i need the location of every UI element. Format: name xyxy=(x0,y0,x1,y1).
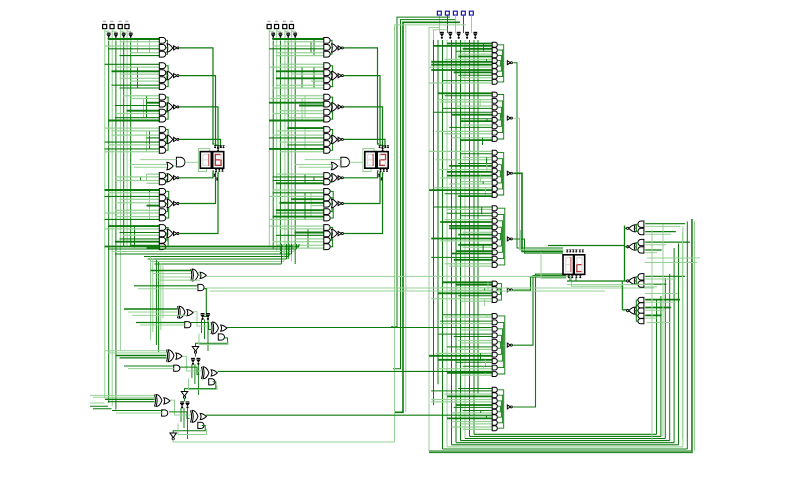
input pin C2 xyxy=(453,11,457,15)
not gate xyxy=(338,231,341,235)
wire xyxy=(575,278,577,282)
and gate xyxy=(324,77,330,83)
and gate xyxy=(492,393,497,398)
and gate xyxy=(492,298,497,303)
wire xyxy=(291,247,324,249)
wire xyxy=(456,361,492,363)
wire xyxy=(436,159,493,161)
wire xyxy=(498,63,504,82)
wire xyxy=(484,373,486,375)
and gate xyxy=(492,162,497,167)
wire xyxy=(299,105,324,107)
wire xyxy=(486,59,488,61)
display pin xyxy=(384,145,387,147)
wire xyxy=(474,433,657,435)
and gate xyxy=(324,134,330,140)
wire xyxy=(311,205,324,207)
or gate xyxy=(332,44,338,52)
wire xyxy=(291,198,324,200)
wire xyxy=(295,164,332,166)
or gate xyxy=(176,353,182,359)
input pin A1 xyxy=(118,25,122,29)
wire xyxy=(199,334,228,345)
display pin xyxy=(579,275,582,277)
wire xyxy=(686,222,688,450)
wire xyxy=(273,38,324,40)
wire xyxy=(513,276,566,346)
wire xyxy=(273,87,324,89)
wire xyxy=(498,239,504,259)
wire xyxy=(90,402,105,404)
display pin xyxy=(386,169,389,171)
and gate xyxy=(324,84,330,90)
or gate xyxy=(200,413,206,419)
and gate xyxy=(159,70,165,76)
inverter BN3 xyxy=(271,34,276,37)
wire xyxy=(105,228,160,230)
wire xyxy=(132,314,187,316)
wire xyxy=(463,246,493,248)
wire xyxy=(445,393,493,395)
wire xyxy=(276,70,324,72)
and gate xyxy=(159,134,165,140)
wire xyxy=(147,247,160,249)
wire xyxy=(452,114,493,116)
pin label xyxy=(290,21,293,23)
wire xyxy=(115,209,159,211)
and gate xyxy=(159,45,165,51)
wire xyxy=(567,284,654,286)
wire xyxy=(287,144,324,146)
wire xyxy=(521,230,564,250)
wire xyxy=(440,177,492,179)
wire xyxy=(498,221,503,239)
wire xyxy=(123,234,160,236)
pin label xyxy=(119,21,122,23)
wire xyxy=(166,73,167,75)
wire xyxy=(443,80,493,82)
wire xyxy=(276,55,324,57)
and gate xyxy=(159,127,165,133)
wire xyxy=(280,63,324,65)
wire xyxy=(438,92,492,94)
wire xyxy=(447,15,449,33)
and gate xyxy=(638,308,644,313)
wire xyxy=(112,410,163,412)
wire xyxy=(344,107,384,146)
wire xyxy=(447,208,492,210)
wire xyxy=(134,285,198,287)
wire xyxy=(429,450,692,452)
wire xyxy=(344,48,379,144)
wire xyxy=(179,171,214,178)
wire xyxy=(166,175,167,178)
and gate xyxy=(324,231,330,237)
wire xyxy=(429,82,492,84)
and gate xyxy=(159,244,165,250)
wire xyxy=(166,40,168,46)
wire xyxy=(276,173,324,175)
display pin xyxy=(383,169,386,171)
wire xyxy=(431,298,492,300)
and gate xyxy=(324,38,330,44)
wire xyxy=(645,278,676,280)
wire xyxy=(498,290,501,295)
wire xyxy=(498,345,504,367)
and gate xyxy=(492,150,497,155)
display pin xyxy=(381,148,384,150)
wire xyxy=(458,74,492,76)
wire xyxy=(567,280,628,282)
wire xyxy=(149,190,151,219)
wire xyxy=(498,407,502,417)
wire xyxy=(395,25,467,442)
inverter AN0 xyxy=(128,34,133,37)
wire xyxy=(137,67,139,85)
wire xyxy=(137,39,139,53)
wire xyxy=(498,390,504,407)
wire xyxy=(207,320,209,352)
wire xyxy=(452,444,679,446)
wire xyxy=(330,203,331,206)
wire xyxy=(127,110,160,112)
and gate xyxy=(159,237,165,243)
wire xyxy=(461,440,670,442)
wire xyxy=(445,316,493,318)
wire xyxy=(166,109,168,119)
wire xyxy=(645,225,680,227)
display pin xyxy=(379,169,382,171)
wire xyxy=(268,29,270,41)
wire xyxy=(452,421,493,423)
wire xyxy=(482,366,484,368)
wire xyxy=(440,240,492,242)
wire xyxy=(120,357,167,359)
wire xyxy=(273,241,324,243)
wire xyxy=(123,41,125,247)
wire xyxy=(147,102,160,104)
down inverter xyxy=(192,347,198,352)
wire xyxy=(461,77,493,79)
wire xyxy=(276,84,324,86)
wire xyxy=(280,202,324,204)
wire xyxy=(330,130,332,138)
and gate xyxy=(324,201,330,207)
pin label xyxy=(267,21,270,23)
wire xyxy=(294,41,296,265)
wire xyxy=(455,40,457,443)
wire xyxy=(330,198,332,203)
wire xyxy=(447,212,492,214)
wire xyxy=(635,277,638,281)
wire xyxy=(280,110,324,112)
and gate xyxy=(492,137,497,142)
wire xyxy=(431,401,492,403)
and gate xyxy=(492,281,497,286)
wire xyxy=(189,379,218,390)
wire xyxy=(456,284,492,286)
and gate xyxy=(324,70,330,76)
or gate xyxy=(167,71,173,79)
wire xyxy=(116,355,167,357)
wire xyxy=(694,221,696,451)
wire xyxy=(463,365,493,367)
wire xyxy=(486,119,488,121)
or gate xyxy=(332,229,338,237)
or gate xyxy=(332,71,338,79)
wire xyxy=(149,131,151,149)
not gate xyxy=(507,237,510,241)
wire xyxy=(151,261,284,263)
wire xyxy=(434,187,493,189)
wire xyxy=(119,41,121,351)
and gate xyxy=(638,303,644,308)
wire xyxy=(438,99,492,101)
wire xyxy=(498,159,503,174)
wire xyxy=(434,30,448,40)
wire xyxy=(463,231,493,233)
wire xyxy=(115,117,159,119)
wire xyxy=(166,191,169,201)
wire xyxy=(436,130,493,132)
wire xyxy=(148,258,287,260)
wire xyxy=(482,138,484,145)
and gate xyxy=(159,116,165,122)
wire xyxy=(513,277,566,290)
input pin B0 xyxy=(289,25,293,29)
or gate xyxy=(167,44,173,52)
wire xyxy=(431,238,492,240)
wire xyxy=(458,244,492,246)
wire xyxy=(330,142,332,151)
wire xyxy=(137,67,139,88)
wire xyxy=(218,370,493,372)
wire xyxy=(445,133,493,135)
wire xyxy=(651,230,653,440)
wire xyxy=(330,233,331,234)
wire xyxy=(105,195,160,197)
wire xyxy=(146,96,148,118)
wire xyxy=(291,73,324,75)
wire xyxy=(498,55,502,62)
and gate xyxy=(492,193,497,198)
wire xyxy=(293,244,295,252)
wire xyxy=(330,66,332,74)
not gate xyxy=(338,176,341,180)
wire xyxy=(330,108,331,113)
wire xyxy=(304,193,306,220)
wire xyxy=(437,40,439,384)
wire xyxy=(454,259,493,261)
wire xyxy=(273,216,324,218)
wire xyxy=(269,218,324,220)
wire xyxy=(434,45,493,47)
wire xyxy=(452,137,493,139)
wire xyxy=(330,78,332,87)
wire xyxy=(431,64,492,66)
and gate xyxy=(159,109,165,115)
wire xyxy=(301,99,303,121)
not gate xyxy=(338,46,341,50)
wire xyxy=(296,244,298,249)
and gate xyxy=(492,187,497,192)
wire xyxy=(635,243,638,247)
wire xyxy=(541,253,566,279)
and gate xyxy=(492,333,497,338)
wire xyxy=(395,22,460,412)
wire xyxy=(645,241,690,243)
wire xyxy=(438,292,492,294)
and gate xyxy=(492,365,497,370)
and gate xyxy=(159,147,165,153)
wire xyxy=(391,17,450,327)
or gate xyxy=(331,162,338,170)
wire xyxy=(461,423,493,425)
wire xyxy=(647,322,670,324)
and gate xyxy=(492,218,497,223)
wire xyxy=(130,52,159,54)
wire xyxy=(456,50,492,52)
not gate xyxy=(338,74,341,78)
wire xyxy=(187,408,189,439)
wire xyxy=(155,260,157,345)
wire xyxy=(463,428,493,430)
wire xyxy=(108,192,159,194)
wire xyxy=(330,175,331,178)
wire xyxy=(330,206,333,218)
wire xyxy=(429,189,492,191)
inverter CN1 xyxy=(465,33,470,36)
wire xyxy=(624,226,626,282)
wire xyxy=(482,182,484,184)
wire xyxy=(645,309,666,311)
wire xyxy=(108,48,159,50)
wire xyxy=(206,414,492,416)
wire xyxy=(498,345,505,374)
wire xyxy=(645,301,675,303)
wire xyxy=(173,426,205,433)
wire xyxy=(273,189,324,191)
wire xyxy=(196,338,228,346)
wire xyxy=(310,42,312,53)
wire xyxy=(669,274,671,441)
not gate xyxy=(338,105,341,109)
not gate xyxy=(174,74,177,78)
wire xyxy=(112,31,116,33)
wire xyxy=(645,223,685,225)
wire xyxy=(456,348,492,350)
input pin C3 xyxy=(445,11,449,15)
wire xyxy=(108,248,297,250)
wire xyxy=(436,352,493,354)
input pin A2 xyxy=(110,25,114,29)
wire xyxy=(105,398,154,400)
wire xyxy=(498,288,501,291)
wire xyxy=(166,78,168,87)
wire xyxy=(134,226,136,245)
wire xyxy=(182,356,201,371)
not gate xyxy=(507,405,510,409)
wire xyxy=(454,406,493,408)
wire xyxy=(429,28,440,41)
and gate xyxy=(324,51,330,57)
wire xyxy=(458,53,492,55)
wire xyxy=(280,141,324,143)
and gate xyxy=(159,141,165,147)
wire xyxy=(498,345,502,354)
pin label xyxy=(275,21,278,23)
inverter xyxy=(200,315,205,318)
and gate xyxy=(492,372,497,377)
and gate xyxy=(492,124,497,129)
wire xyxy=(104,29,106,41)
inverter BN2 xyxy=(278,34,283,37)
wire xyxy=(487,282,489,289)
wire xyxy=(461,300,493,302)
wire xyxy=(104,41,106,399)
wire xyxy=(159,279,201,281)
wire xyxy=(120,198,160,200)
and gate xyxy=(492,244,497,249)
wire xyxy=(498,165,502,174)
wire xyxy=(115,66,159,68)
and gate xyxy=(492,352,497,357)
not gate xyxy=(174,176,177,180)
or gate xyxy=(332,174,338,182)
and gate xyxy=(159,77,165,83)
and gate xyxy=(492,415,497,420)
wire xyxy=(151,270,191,272)
wire xyxy=(471,15,473,33)
wire xyxy=(498,45,504,63)
wire xyxy=(330,179,331,182)
wire xyxy=(111,29,113,41)
wire xyxy=(678,244,680,445)
and gate xyxy=(324,147,330,153)
and gate xyxy=(324,189,330,195)
wire xyxy=(147,182,160,184)
wire xyxy=(279,41,281,255)
wire xyxy=(111,41,113,407)
wire xyxy=(166,130,168,138)
wire xyxy=(645,286,657,288)
wire xyxy=(454,71,493,73)
wire xyxy=(166,137,167,139)
wire xyxy=(330,234,331,240)
wire xyxy=(463,410,493,412)
wire xyxy=(645,283,666,285)
wire xyxy=(447,395,492,397)
and gate xyxy=(324,127,330,133)
wire xyxy=(105,45,160,47)
and gate xyxy=(159,231,165,237)
xor gate xyxy=(168,350,174,362)
wire xyxy=(158,262,160,352)
input pin C4 xyxy=(437,11,441,15)
wire xyxy=(160,264,162,330)
wire xyxy=(498,50,503,63)
wire xyxy=(635,311,638,322)
wire xyxy=(127,31,131,33)
wire xyxy=(458,234,492,236)
wire xyxy=(344,173,384,234)
wire xyxy=(269,225,324,227)
and gate xyxy=(492,53,497,58)
inverter xyxy=(196,359,201,362)
display pin xyxy=(221,169,224,171)
wire xyxy=(273,134,324,136)
wire xyxy=(429,66,492,68)
